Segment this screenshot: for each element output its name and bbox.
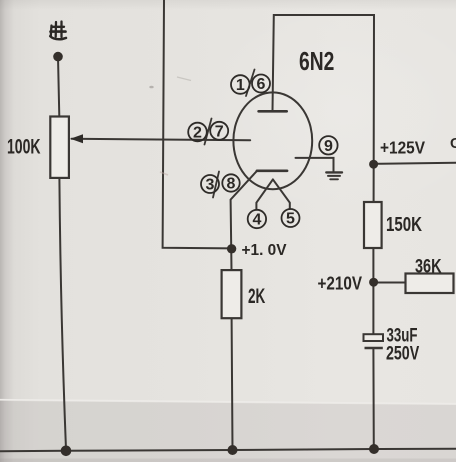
svg-text:C: C xyxy=(450,136,456,152)
svg-text:3: 3 xyxy=(206,177,215,194)
svg-text:100K: 100K xyxy=(7,135,41,158)
svg-text:150K: 150K xyxy=(386,214,422,236)
svg-text:8: 8 xyxy=(227,176,236,193)
svg-text:250V: 250V xyxy=(386,343,419,364)
svg-text:+1. 0V: +1. 0V xyxy=(242,242,287,259)
svg-text:36K: 36K xyxy=(415,257,442,278)
svg-text:5: 5 xyxy=(286,211,295,228)
svg-text:1: 1 xyxy=(236,77,245,94)
svg-text:9: 9 xyxy=(324,138,333,155)
svg-text:2: 2 xyxy=(193,125,202,142)
svg-text:4: 4 xyxy=(252,212,261,229)
svg-text:2K: 2K xyxy=(248,285,265,308)
svg-text:6N2: 6N2 xyxy=(299,46,334,76)
svg-text:+125V: +125V xyxy=(380,137,425,157)
svg-text:7: 7 xyxy=(215,124,224,141)
svg-text:6: 6 xyxy=(257,76,266,93)
svg-text:+210V: +210V xyxy=(318,274,363,294)
